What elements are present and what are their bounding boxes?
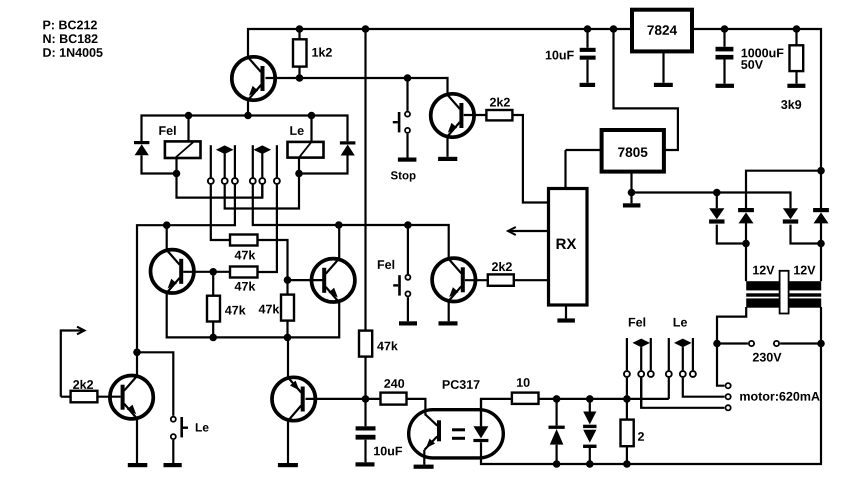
junction node1 — [296, 25, 304, 33]
resistor 47k Q3 bias — [207, 296, 220, 322]
label 10uF — [374, 447, 402, 456]
junction node24 — [586, 395, 594, 403]
wire contact stem 5 — [261, 154, 263, 178]
push button Fel — [393, 275, 410, 297]
label 47k — [259, 304, 280, 313]
wire contact stem 2 — [224, 154, 226, 178]
wire contact stem 3 — [234, 145, 236, 177]
resistor 47k drop — [359, 331, 372, 357]
wire 1000uF bottom lead — [723, 60, 725, 84]
signal arrow into RX — [508, 227, 516, 235]
label 12V — [753, 266, 774, 275]
wire node to Le button — [137, 352, 173, 416]
wire 7805 gnd stub — [630, 193, 632, 204]
wire opto emitter to ground — [423, 450, 425, 465]
wire diode to Fel node — [142, 155, 177, 173]
junction node18 — [284, 276, 292, 284]
label 47k — [235, 250, 256, 259]
wire contact 1 to 47k — [211, 185, 230, 240]
relay contact 6 (bottom bank) — [690, 371, 696, 377]
wire 47k to node — [364, 357, 366, 399]
label 2k2 — [492, 262, 512, 271]
transistor Q2 — [431, 94, 474, 137]
capacitor 1000uF 50V — [716, 47, 734, 60]
junction node32 — [742, 240, 750, 248]
label 2k2 — [73, 380, 93, 389]
resistor 2 — [621, 420, 634, 447]
junction node7 — [296, 74, 304, 82]
diode D6 — [583, 412, 596, 425]
wire bottom contact stem 6 — [692, 338, 694, 370]
wire Fel coil bottom lead — [175, 158, 177, 174]
wire 7824 gnd lead — [662, 52, 664, 83]
diode Fel relay — [134, 141, 149, 144]
optocoupler PC317 — [409, 399, 504, 458]
wire emitter rail Q3-Q4 — [167, 293, 340, 337]
junction node14 — [163, 221, 171, 229]
wire bottom contact stem 1 — [626, 338, 628, 370]
wire Fel button lower lead — [407, 297, 409, 321]
junction node30 — [713, 189, 721, 197]
wire gnd bus to D3 — [632, 193, 791, 209]
receiver RX — [549, 189, 588, 306]
label 1000uF — [742, 48, 784, 57]
junction node3 — [584, 25, 592, 33]
resistor 47k upper — [230, 235, 258, 246]
wire +24V rail left / Q1 collector riser — [248, 29, 632, 57]
label 1k2 — [312, 48, 332, 57]
wire 10uF bottom lead — [586, 60, 588, 83]
diode D4 bridge — [813, 208, 829, 212]
junction node17 — [209, 268, 217, 276]
label Fel — [378, 260, 394, 269]
wire R2 to rail — [626, 446, 628, 464]
connector motor pin3 — [726, 405, 731, 410]
wire Fel node to contact 5 — [177, 174, 263, 198]
wire Q6 emitter to ground — [136, 419, 138, 463]
relay contact 2 (top bank) — [222, 178, 228, 184]
wire Q1 emitter to rail — [247, 100, 249, 116]
relay contact 4 (bottom bank) — [666, 371, 672, 377]
label 3k9 — [781, 100, 801, 109]
wire Le node to contact 2 — [225, 174, 299, 209]
contact actuator arrow Fel (bottom) — [632, 339, 650, 348]
resistor 2k2 (Q6 base) — [71, 391, 98, 403]
junction node5 — [721, 25, 729, 33]
wire Q4 collector riser — [338, 225, 340, 258]
relay contact 3 (top bank) — [232, 178, 238, 184]
label Le — [290, 126, 303, 135]
wire 7805 output — [566, 149, 602, 151]
resistor 10 — [512, 393, 539, 404]
ground Q6 emitter ground — [128, 463, 148, 467]
wire 7805 gnd lead — [630, 172, 632, 193]
push button Le — [171, 417, 188, 439]
label Le — [196, 423, 209, 431]
wire D1 to D2 node — [717, 225, 746, 244]
connector 230V right — [774, 341, 779, 346]
wire D3 to D4 node — [791, 225, 822, 244]
relay contact 5 (top bank) — [259, 178, 265, 184]
connector 230V left — [749, 341, 754, 346]
ground 7824 ground — [654, 83, 673, 87]
ground Q5 emitter ground — [439, 321, 458, 325]
wire 3k9 bottom lead — [795, 71, 797, 84]
wire 1k2 bottom lead — [298, 67, 300, 78]
wire Stop button feed — [406, 78, 408, 111]
wire D2 to transformer — [745, 222, 747, 281]
resistor 47k Q4 bias — [281, 295, 294, 321]
label 2 — [638, 432, 644, 441]
wire opto LED to 10 — [481, 399, 512, 427]
wire Le coil top lead — [310, 116, 312, 142]
transformer 2x12V/230V — [746, 271, 821, 314]
junction node12 — [173, 170, 181, 178]
signal arrow at Q6 input — [77, 327, 85, 335]
wire Q2 emitter to ground — [446, 137, 448, 156]
relay contact 1 (top bank) — [208, 178, 214, 184]
junction node21 — [284, 334, 292, 342]
wire Fel button feed — [407, 225, 409, 274]
wire diode to Le node — [299, 155, 348, 173]
wire 7805 out to RX top — [564, 150, 566, 189]
diode D5 — [549, 426, 565, 429]
junction node28 — [623, 460, 631, 468]
wire motor pin3 to contact — [641, 378, 724, 408]
wire D2 top rail — [746, 171, 821, 208]
wire contact 6 to 47k — [258, 185, 277, 272]
label Le — [674, 318, 687, 327]
wire Q2 base to 2k2 — [464, 114, 487, 116]
wire bottom contact stem 3 — [650, 338, 652, 370]
diode D3 bridge — [783, 208, 798, 219]
junction node27 — [586, 460, 594, 468]
junction node2 — [362, 25, 370, 33]
wire bottom contact stem 5 — [682, 347, 684, 370]
junction node34 — [713, 340, 721, 348]
wire Q3 base to 47k — [183, 271, 230, 273]
contact actuator arrow Le (bottom) — [674, 339, 692, 348]
relay coil Fel — [165, 141, 201, 158]
wire contact 4 bus to Q5 top — [253, 185, 449, 259]
label Stop — [391, 171, 416, 181]
transistor Q4 — [312, 259, 355, 302]
wire Q5 emitter to ground — [448, 302, 450, 322]
wire 2k2 to RX pin3 — [514, 279, 549, 281]
wire 10 to contact bus — [539, 398, 669, 400]
junction node6 — [793, 25, 801, 33]
wire Q3 base to 47k upper — [212, 272, 214, 296]
label 47k — [377, 341, 398, 350]
wire Q5 base to 2k2 — [465, 279, 488, 281]
wire Stop button lower lead — [406, 134, 408, 158]
label Fel — [629, 317, 645, 326]
junction node22 — [362, 395, 370, 403]
wire 47k to Q4 base node — [258, 240, 288, 280]
wire bottom return rail — [481, 344, 821, 465]
connector motor pin1 — [726, 383, 731, 388]
wire Q3 collector lead — [166, 225, 168, 250]
diode D7 — [583, 430, 596, 443]
wire bottom contact stem 2 — [640, 347, 642, 370]
wire 47k to emitter rail — [286, 321, 288, 338]
ground RX ground — [557, 318, 575, 322]
label PC317 — [443, 380, 480, 389]
ground Fel button ground — [399, 321, 417, 325]
wire +24V rail right segment — [692, 29, 821, 171]
connector motor pin2 — [726, 394, 731, 399]
wire Q7 collector to ground — [287, 421, 289, 463]
ground 1000uF ground — [716, 84, 735, 88]
ground Stop terminal — [398, 158, 417, 162]
junction node33 — [817, 240, 825, 248]
wire long drop to 47k — [364, 29, 366, 331]
label 10uF — [546, 51, 574, 60]
relay contact 2 (bottom bank) — [638, 371, 644, 377]
regulator 7824 — [632, 10, 692, 52]
wire bottom contact 4 drop — [668, 378, 670, 399]
transistor Q6 — [110, 376, 153, 419]
label P: BC212 — [43, 20, 97, 29]
wire to D6 — [589, 399, 591, 412]
label 230V — [753, 353, 782, 362]
wire contact 1 to R2 — [626, 378, 628, 420]
wire to motor pin1 — [717, 344, 724, 386]
junction node16 — [404, 221, 412, 229]
wire 1000uF top lead — [723, 29, 725, 47]
contact actuator arrow Fel — [216, 145, 234, 154]
wire 1k2 top lead — [298, 29, 300, 39]
wire contact stem 4 — [252, 145, 254, 177]
capacitor 10uF (24V rail) — [580, 48, 596, 60]
diode D1 bridge — [709, 208, 724, 219]
junction node23 — [553, 395, 561, 403]
junction node4 — [610, 25, 618, 33]
wire Q6 collector lead — [136, 352, 138, 376]
wire rail to 7805 input — [614, 29, 678, 150]
ground 3k9 ground — [787, 84, 805, 88]
wire Q4 node to 47k — [286, 280, 288, 295]
junction node11 — [308, 112, 316, 120]
wire 2k2 to Q6 base — [97, 396, 120, 398]
wire 10uF to ground — [364, 440, 366, 463]
diode Le relay — [340, 141, 356, 144]
contact actuator arrow Le — [254, 145, 272, 154]
wire contact 3 bus to Q6 node — [137, 185, 235, 353]
junction node8 — [404, 74, 412, 82]
wire Fel coil top lead — [187, 116, 189, 142]
regulator 7805 — [602, 130, 664, 172]
ground 10uF ground — [580, 83, 596, 87]
label N: BC182 — [43, 34, 97, 43]
wire arrow drop to 2k2 — [61, 396, 71, 398]
junction node25 — [623, 395, 631, 403]
ground Le button ground — [164, 463, 182, 467]
transistor Q3 — [151, 250, 194, 293]
junction node35 — [817, 340, 825, 348]
wire Le button lower lead — [172, 440, 174, 463]
label Fel — [159, 126, 175, 135]
wire Le coil bottom lead — [298, 158, 300, 174]
wire bottom contact 2 drop — [640, 378, 642, 408]
junction node9 — [185, 112, 193, 120]
ground 7805 ground — [623, 203, 641, 207]
ground 10uF ground (lower) — [356, 462, 375, 466]
wire Q4 base lead — [288, 279, 324, 281]
junction node10 — [244, 112, 252, 120]
label 47k — [225, 305, 246, 314]
transistor Q5 — [432, 258, 475, 301]
wire D7 to rail — [589, 448, 591, 464]
resistor 47k lower — [230, 267, 258, 278]
label 12V — [794, 266, 815, 275]
junction node26 — [553, 460, 561, 468]
wire input arrow line — [61, 331, 85, 397]
wire 10uF top lead — [586, 29, 588, 48]
resistor 240 — [381, 393, 407, 405]
wire 2k2 to RX pin1 — [512, 115, 548, 203]
junction node20 — [209, 334, 217, 342]
wire 240 to opto collector — [407, 399, 426, 416]
wire node to 10uF — [364, 399, 366, 426]
wire to D1 — [716, 193, 718, 209]
resistor 2k2 (Q5 base) — [488, 274, 514, 285]
wire Q1 base line to Q2 top — [266, 78, 448, 94]
wire to D4 — [820, 171, 822, 208]
label D: 1N4005 — [43, 48, 102, 57]
wire Q7 base to 240 — [306, 398, 381, 400]
ground Q7 collector ground — [278, 463, 298, 467]
wire to D5 — [555, 399, 557, 426]
label motor:620mA — [740, 392, 819, 401]
label 240 — [384, 379, 404, 388]
wire contact 5 lower stem — [261, 185, 263, 198]
wire contact stem 1 — [210, 145, 212, 177]
junction node13 — [295, 170, 303, 178]
resistor 2k2 (Q2 base) — [486, 110, 512, 120]
diode D2 bridge — [738, 208, 754, 212]
junction node31 — [817, 167, 825, 175]
wire contact stem 6 — [276, 145, 278, 177]
wire 3k9 top lead — [795, 29, 797, 45]
ground Q2 emitter ground — [438, 157, 457, 161]
wire RX input arrow line — [508, 230, 549, 232]
capacitor 10uF (Q7 node) — [356, 426, 376, 439]
junction node29 — [628, 189, 636, 197]
wire Q7 emitter lead — [287, 337, 289, 377]
resistor 1k2 — [293, 39, 307, 66]
relay contact 6 (top bank) — [274, 178, 280, 184]
wire 230V right — [780, 342, 821, 344]
relay contact 4 (top bank) — [250, 178, 256, 184]
label 10 — [517, 378, 530, 387]
relay coil Le — [288, 142, 324, 158]
label 47k — [235, 282, 256, 291]
junction node15 — [335, 221, 343, 229]
transistor Q1 — [232, 57, 275, 100]
label 2k2 — [490, 97, 510, 106]
label 50V — [741, 60, 763, 69]
transistor Q7 — [272, 377, 315, 420]
wire D5 to rail — [555, 445, 557, 464]
wire bottom contact stem 4 — [668, 338, 670, 370]
relay contact 5 (bottom bank) — [680, 371, 686, 377]
wire 47k to emitter rail — [212, 322, 214, 338]
relay contact 1 (bottom bank) — [624, 371, 630, 377]
wire RX bottom to ground — [565, 305, 567, 318]
wire transformer primary right — [820, 307, 822, 344]
ground opto emitter ground — [414, 465, 434, 469]
wire transformer primary left — [717, 307, 746, 344]
resistor 3k9 — [790, 45, 804, 71]
relay contact 3 (bottom bank) — [648, 371, 654, 377]
wire relay supply rail — [142, 116, 348, 142]
wire motor pin2 to contact — [683, 378, 725, 397]
junction node19 — [133, 349, 141, 357]
wire D4 to transformer — [820, 222, 822, 281]
wire 230V left — [717, 342, 748, 344]
push button Stop — [393, 112, 410, 133]
